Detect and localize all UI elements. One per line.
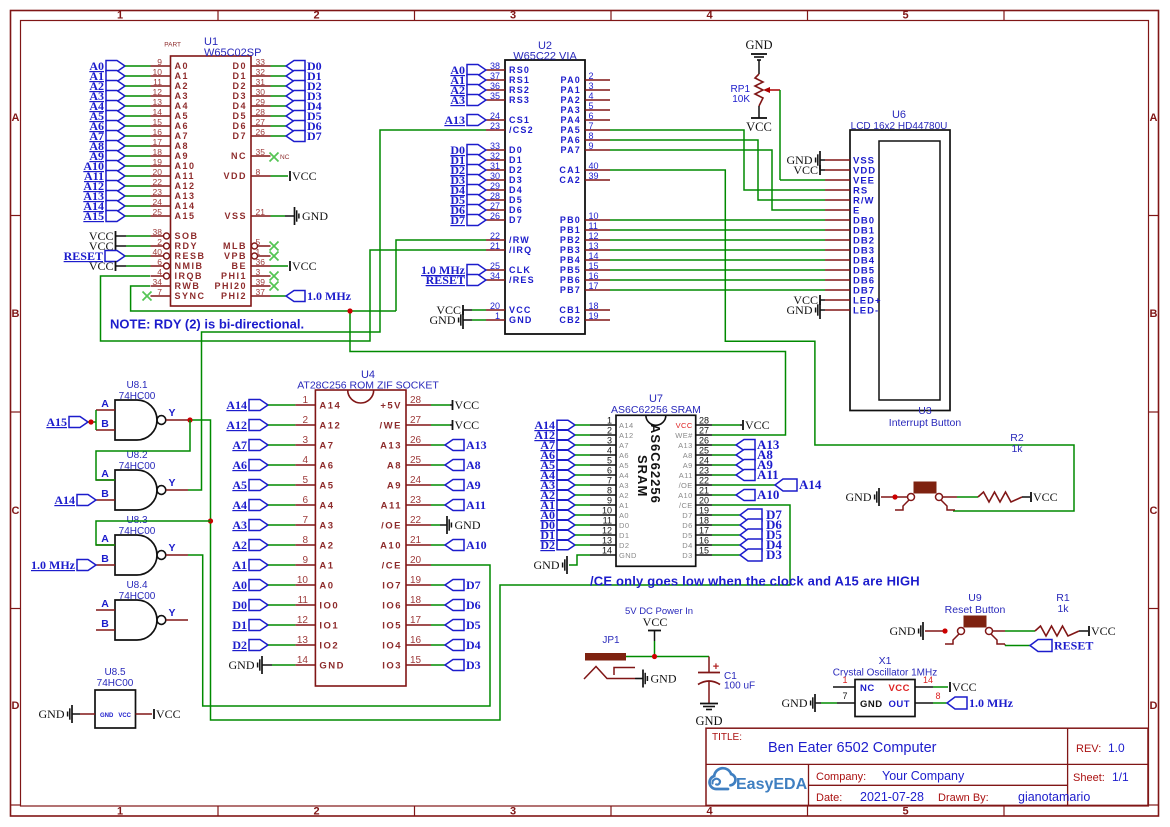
svg-text:PB5: PB5: [560, 265, 581, 275]
svg-text:D2: D2: [509, 165, 523, 175]
svg-text:/RES: /RES: [509, 275, 535, 285]
svg-text:5: 5: [589, 101, 594, 111]
svg-text:10: 10: [589, 211, 599, 221]
svg-text:Y: Y: [168, 607, 175, 619]
svg-text:27: 27: [256, 117, 266, 127]
svg-text:5: 5: [302, 475, 308, 486]
svg-text:A1: A1: [175, 71, 190, 81]
svg-text:A14: A14: [799, 477, 822, 492]
svg-text:39: 39: [256, 277, 266, 287]
svg-text:A5: A5: [232, 478, 247, 492]
svg-text:D6: D6: [682, 521, 692, 530]
svg-text:CLK: CLK: [509, 265, 531, 275]
svg-text:9: 9: [157, 57, 162, 67]
svg-text:AS6C62256 SRAM: AS6C62256 SRAM: [611, 404, 701, 416]
svg-text:28: 28: [410, 395, 422, 406]
svg-text:GND: GND: [455, 518, 481, 532]
svg-text:37: 37: [490, 71, 500, 81]
svg-text:A15: A15: [46, 415, 67, 429]
svg-text:15: 15: [589, 261, 599, 271]
svg-text:A6: A6: [319, 461, 334, 472]
svg-text:8: 8: [935, 691, 940, 701]
svg-text:RESET: RESET: [426, 273, 465, 287]
svg-text:A12: A12: [319, 421, 341, 432]
svg-text:GND: GND: [695, 714, 722, 728]
svg-text:VSS: VSS: [224, 211, 247, 221]
svg-text:1: 1: [302, 395, 308, 406]
svg-text:D0: D0: [509, 145, 523, 155]
svg-text:18: 18: [410, 595, 422, 606]
svg-text:D6: D6: [232, 121, 247, 131]
svg-text:VCC: VCC: [888, 683, 910, 694]
svg-text:21: 21: [490, 241, 500, 251]
svg-text:PART: PART: [164, 42, 181, 49]
svg-text:7: 7: [607, 476, 612, 486]
svg-text:7: 7: [302, 515, 308, 526]
svg-text:GND: GND: [890, 624, 916, 638]
svg-text:/CS2: /CS2: [509, 125, 534, 135]
svg-text:EasyEDA: EasyEDA: [736, 776, 808, 793]
svg-text:A12: A12: [226, 418, 247, 432]
svg-text:12: 12: [589, 231, 599, 241]
svg-text:A11: A11: [175, 171, 196, 181]
svg-text:28: 28: [699, 416, 709, 426]
svg-text:A: A: [101, 598, 109, 610]
svg-text:4: 4: [589, 91, 594, 101]
svg-text:D2: D2: [232, 638, 247, 652]
svg-text:19: 19: [589, 311, 599, 321]
svg-text:24: 24: [490, 111, 500, 121]
svg-text:D7: D7: [682, 511, 692, 520]
svg-text:5: 5: [607, 456, 612, 466]
svg-text:16: 16: [410, 635, 422, 646]
svg-text:7: 7: [157, 287, 162, 297]
svg-text:gianotamario: gianotamario: [1018, 790, 1090, 804]
svg-text:2: 2: [313, 806, 319, 818]
svg-text:CA2: CA2: [559, 175, 581, 185]
svg-text:18: 18: [699, 516, 709, 526]
svg-text:D7: D7: [509, 215, 523, 225]
svg-text:14: 14: [297, 655, 309, 666]
svg-text:/CE: /CE: [382, 561, 402, 572]
svg-text:4: 4: [607, 446, 612, 456]
svg-text:8: 8: [607, 486, 612, 496]
svg-text:U6: U6: [892, 109, 906, 121]
svg-text:D2: D2: [540, 538, 555, 552]
svg-text:10K: 10K: [732, 94, 750, 105]
svg-text:24: 24: [699, 456, 709, 466]
svg-text:CB1: CB1: [559, 305, 581, 315]
svg-text:LCD 16x2 HD44780U: LCD 16x2 HD44780U: [851, 121, 948, 132]
svg-text:PB7: PB7: [560, 285, 581, 295]
svg-text:40: 40: [589, 161, 599, 171]
svg-text:/OE: /OE: [679, 481, 693, 490]
svg-text:A13: A13: [444, 113, 465, 127]
svg-text:2: 2: [607, 426, 612, 436]
svg-text:A5: A5: [619, 461, 629, 470]
svg-text:15: 15: [699, 546, 709, 556]
svg-text:D4: D4: [466, 638, 481, 652]
svg-text:34: 34: [490, 271, 500, 281]
svg-text:D4: D4: [232, 101, 247, 111]
svg-text:D7: D7: [307, 129, 322, 143]
svg-text:GND: GND: [39, 707, 65, 721]
svg-text:29: 29: [256, 97, 266, 107]
svg-text:9: 9: [607, 496, 612, 506]
svg-text:VCC: VCC: [156, 707, 181, 721]
svg-text:34: 34: [153, 277, 163, 287]
svg-text:D: D: [12, 700, 20, 712]
svg-text:A11: A11: [466, 498, 486, 512]
svg-text:27: 27: [490, 201, 500, 211]
svg-text:A6: A6: [175, 121, 190, 131]
svg-text:D2: D2: [232, 81, 247, 91]
svg-text:33: 33: [256, 57, 266, 67]
svg-text:C: C: [1150, 505, 1158, 517]
svg-text:A13: A13: [175, 191, 196, 201]
svg-text:A14: A14: [619, 421, 634, 430]
svg-text:26: 26: [410, 435, 422, 446]
svg-text:2: 2: [313, 10, 319, 22]
svg-text:D7: D7: [450, 213, 465, 227]
svg-text:GND: GND: [534, 558, 560, 572]
svg-text:D7: D7: [466, 578, 481, 592]
svg-text:26: 26: [699, 436, 709, 446]
svg-text:13: 13: [602, 536, 612, 546]
svg-text:U8.4: U8.4: [126, 580, 148, 591]
svg-text:/IRQ: /IRQ: [509, 245, 532, 255]
svg-text:39: 39: [589, 171, 599, 181]
svg-text:+: +: [713, 661, 719, 673]
svg-text:PA5: PA5: [561, 125, 581, 135]
svg-text:1.0 MHz: 1.0 MHz: [31, 558, 76, 572]
svg-text:6: 6: [589, 111, 594, 121]
svg-text:14: 14: [602, 546, 612, 556]
svg-text:BE: BE: [231, 261, 247, 271]
svg-text:17: 17: [410, 615, 422, 626]
svg-text:A5: A5: [319, 481, 334, 492]
svg-text:D3: D3: [682, 551, 692, 560]
svg-text:D1: D1: [509, 155, 523, 165]
svg-text:W65C22 VIA: W65C22 VIA: [513, 51, 577, 63]
svg-text:A10: A10: [466, 538, 487, 552]
svg-text:PHI1: PHI1: [221, 271, 247, 281]
svg-text:74HC00: 74HC00: [97, 678, 134, 689]
svg-text:RS1: RS1: [509, 75, 530, 85]
svg-text:31: 31: [256, 77, 266, 87]
svg-text:6: 6: [157, 257, 162, 267]
svg-text:1: 1: [607, 416, 612, 426]
svg-text:17: 17: [589, 281, 599, 291]
svg-text:IRQB: IRQB: [175, 271, 204, 281]
svg-text:GND: GND: [509, 315, 533, 325]
svg-text:A: A: [101, 398, 109, 410]
svg-text:36: 36: [256, 257, 266, 267]
svg-text:/OE: /OE: [381, 521, 402, 532]
svg-text:11: 11: [298, 595, 309, 606]
svg-text:GND: GND: [651, 672, 677, 686]
svg-text:A3: A3: [319, 521, 334, 532]
svg-text:25: 25: [153, 207, 163, 217]
svg-text:3: 3: [607, 436, 612, 446]
svg-text:SOB: SOB: [175, 231, 199, 241]
svg-text:1k: 1k: [1011, 443, 1023, 455]
svg-text:D0: D0: [232, 61, 247, 71]
svg-text:TITLE:: TITLE:: [712, 732, 742, 743]
svg-text:PA1: PA1: [561, 85, 581, 95]
svg-text:A2: A2: [319, 541, 334, 552]
svg-text:28: 28: [490, 191, 500, 201]
svg-text:VPB: VPB: [224, 251, 247, 261]
svg-text:A9: A9: [175, 151, 190, 161]
svg-text:74HC00: 74HC00: [119, 526, 156, 537]
svg-text:NC: NC: [231, 151, 247, 161]
svg-text:1/1: 1/1: [1112, 770, 1129, 784]
svg-text:B: B: [12, 308, 20, 320]
svg-text:3: 3: [302, 435, 308, 446]
svg-text:19: 19: [699, 506, 709, 516]
svg-text:SYNC: SYNC: [175, 291, 206, 301]
svg-text:9: 9: [589, 141, 594, 151]
svg-text:PA7: PA7: [561, 145, 581, 155]
svg-text:11: 11: [153, 77, 162, 87]
svg-text:22: 22: [699, 476, 709, 486]
svg-text:8: 8: [589, 131, 594, 141]
svg-text:B: B: [101, 418, 109, 430]
svg-text:A8: A8: [466, 458, 481, 472]
svg-text:D5: D5: [682, 531, 692, 540]
svg-text:A8: A8: [683, 451, 693, 460]
svg-text:13: 13: [153, 97, 163, 107]
svg-text:23: 23: [490, 121, 500, 131]
svg-text:CS1: CS1: [509, 115, 530, 125]
svg-text:/WE: /WE: [380, 421, 402, 432]
svg-text:U8.1: U8.1: [126, 380, 148, 391]
svg-text:W65C02SP: W65C02SP: [204, 47, 261, 59]
svg-text:13: 13: [297, 635, 309, 646]
svg-text:36: 36: [490, 81, 500, 91]
svg-text:33: 33: [490, 141, 500, 151]
svg-text:SRAM: SRAM: [635, 455, 650, 497]
svg-text:PHI2: PHI2: [221, 291, 247, 301]
svg-text:25: 25: [410, 455, 422, 466]
svg-text:Company:: Company:: [816, 771, 866, 783]
svg-text:2: 2: [589, 71, 594, 81]
svg-text:A4: A4: [232, 498, 247, 512]
svg-text:A14: A14: [226, 398, 247, 412]
svg-text:B: B: [1150, 308, 1158, 320]
svg-text:VCC: VCC: [292, 169, 317, 183]
svg-text:A12: A12: [175, 181, 196, 191]
svg-text:GND: GND: [319, 661, 345, 672]
svg-text:A14: A14: [54, 493, 75, 507]
svg-text:A13: A13: [466, 438, 487, 452]
svg-text:A6: A6: [232, 458, 247, 472]
svg-text:D2: D2: [619, 541, 629, 550]
svg-text:IO2: IO2: [319, 641, 339, 652]
svg-text:A10: A10: [380, 541, 402, 552]
svg-text:2021-07-28: 2021-07-28: [860, 790, 924, 804]
svg-text:4: 4: [706, 10, 713, 22]
svg-text:A: A: [1150, 112, 1158, 124]
svg-text:22: 22: [153, 177, 163, 187]
svg-text:18: 18: [153, 147, 163, 157]
svg-text:14: 14: [589, 251, 599, 261]
svg-text:CA1: CA1: [559, 165, 581, 175]
svg-text:REV:: REV:: [1076, 743, 1101, 755]
svg-text:RDY: RDY: [175, 241, 199, 251]
svg-text:3: 3: [510, 806, 516, 818]
svg-text:VCC: VCC: [118, 713, 131, 719]
svg-text:D4: D4: [682, 541, 692, 550]
svg-text:IO5: IO5: [382, 621, 402, 632]
svg-text:9: 9: [302, 555, 308, 566]
svg-text:1: 1: [495, 311, 500, 321]
svg-text:8: 8: [256, 167, 261, 177]
svg-text:PA2: PA2: [561, 95, 581, 105]
svg-text:A6: A6: [619, 451, 629, 460]
svg-text:VDD: VDD: [223, 171, 247, 181]
svg-text:U8.5: U8.5: [104, 667, 126, 678]
svg-text:U3: U3: [918, 405, 932, 417]
svg-text:A5: A5: [175, 111, 190, 121]
svg-text:GND: GND: [787, 303, 813, 317]
svg-text:PA6: PA6: [561, 135, 581, 145]
svg-text:OUT: OUT: [888, 699, 910, 710]
svg-text:A13: A13: [678, 441, 693, 450]
svg-text:GND: GND: [619, 551, 637, 560]
svg-text:2: 2: [302, 415, 308, 426]
svg-text:VCC: VCC: [292, 259, 317, 273]
svg-text:20: 20: [699, 496, 709, 506]
svg-text:VCC: VCC: [455, 398, 480, 412]
svg-text:D0: D0: [619, 521, 629, 530]
svg-text:PA4: PA4: [561, 115, 581, 125]
svg-text:PB4: PB4: [560, 255, 581, 265]
svg-text:A14: A14: [319, 401, 341, 412]
svg-text:A0: A0: [232, 578, 247, 592]
svg-text:1k: 1k: [1057, 603, 1069, 615]
svg-text:30: 30: [256, 87, 266, 97]
svg-text:8: 8: [302, 535, 308, 546]
svg-text:/CE only goes low when the clo: /CE only goes low when the clock and A15…: [590, 574, 920, 589]
svg-text:/RW: /RW: [509, 235, 530, 245]
svg-text:17: 17: [699, 526, 709, 536]
svg-text:Y: Y: [168, 477, 175, 489]
svg-text:7: 7: [842, 691, 847, 701]
svg-text:A4: A4: [319, 501, 334, 512]
svg-text:NOTE: RDY (2) is bi-directiona: NOTE: RDY (2) is bi-directional.: [110, 317, 304, 332]
svg-text:A15: A15: [175, 211, 196, 221]
svg-text:B: B: [101, 618, 109, 630]
svg-text:19: 19: [410, 575, 422, 586]
svg-text:4: 4: [302, 455, 308, 466]
svg-text:JP1: JP1: [602, 635, 620, 646]
svg-text:VCC: VCC: [746, 120, 772, 134]
svg-text:25: 25: [490, 261, 500, 271]
svg-text:12: 12: [153, 87, 163, 97]
svg-text:D0: D0: [232, 598, 247, 612]
svg-text:IO3: IO3: [382, 661, 402, 672]
svg-text:31: 31: [490, 161, 500, 171]
svg-text:Date:: Date:: [816, 792, 842, 804]
svg-text:10: 10: [297, 575, 309, 586]
svg-text:28: 28: [256, 107, 266, 117]
svg-text:VCC: VCC: [643, 615, 668, 629]
svg-text:IO0: IO0: [319, 601, 339, 612]
svg-text:1: 1: [256, 247, 261, 257]
svg-text:1.0: 1.0: [1108, 741, 1125, 755]
svg-text:PB3: PB3: [560, 245, 581, 255]
svg-text:D3: D3: [232, 91, 247, 101]
svg-text:A9: A9: [466, 478, 481, 492]
svg-text:A14: A14: [175, 201, 196, 211]
svg-text:C: C: [12, 505, 20, 517]
svg-text:D1: D1: [232, 618, 247, 632]
svg-text:A10: A10: [757, 487, 779, 502]
svg-text:D6: D6: [509, 205, 523, 215]
svg-text:A4: A4: [619, 471, 629, 480]
svg-text:12: 12: [297, 615, 309, 626]
svg-text:30: 30: [490, 171, 500, 181]
svg-text:7: 7: [589, 121, 594, 131]
svg-text:5: 5: [902, 10, 908, 22]
svg-text:A11: A11: [757, 467, 779, 482]
svg-text:A: A: [101, 533, 109, 545]
svg-text:U9: U9: [968, 592, 982, 604]
svg-text:10: 10: [602, 506, 612, 516]
svg-text:32: 32: [256, 67, 266, 77]
svg-text:A11: A11: [679, 471, 693, 480]
svg-text:IO1: IO1: [319, 621, 339, 632]
svg-text:10: 10: [153, 67, 163, 77]
svg-text:D6: D6: [466, 598, 481, 612]
svg-text:B: B: [101, 553, 109, 565]
svg-text:11: 11: [603, 516, 612, 526]
svg-text:A7: A7: [175, 131, 190, 141]
svg-text:22: 22: [410, 515, 422, 526]
svg-text:Ben Eater 6502 Computer: Ben Eater 6502 Computer: [768, 740, 937, 756]
svg-text:PA3: PA3: [561, 105, 581, 115]
svg-text:D3: D3: [766, 547, 782, 562]
svg-text:29: 29: [490, 181, 500, 191]
svg-text:D1: D1: [619, 531, 629, 540]
svg-text:1: 1: [842, 675, 847, 685]
svg-text:1.0 MHz: 1.0 MHz: [307, 289, 352, 303]
svg-text:RWB: RWB: [175, 281, 201, 291]
svg-text:RESB: RESB: [175, 251, 206, 261]
svg-text:23: 23: [153, 187, 163, 197]
svg-text:B: B: [101, 488, 109, 500]
svg-text:1: 1: [117, 806, 123, 818]
svg-text:A9: A9: [683, 461, 693, 470]
svg-text:22: 22: [490, 231, 500, 241]
svg-text:RESET: RESET: [1054, 639, 1093, 653]
svg-text:26: 26: [490, 211, 500, 221]
svg-text:A11: A11: [381, 501, 402, 512]
svg-text:D7: D7: [232, 131, 247, 141]
svg-text:IO4: IO4: [382, 641, 402, 652]
svg-text:40: 40: [153, 247, 163, 257]
svg-text:PB0: PB0: [560, 215, 581, 225]
svg-text:A3: A3: [232, 518, 247, 532]
svg-text:+5V: +5V: [380, 401, 402, 412]
svg-text:A7: A7: [619, 441, 629, 450]
svg-text:Reset Button: Reset Button: [945, 604, 1006, 616]
svg-text:74HC00: 74HC00: [119, 461, 156, 472]
svg-text:MLB: MLB: [223, 241, 247, 251]
svg-text:A2: A2: [175, 81, 190, 91]
